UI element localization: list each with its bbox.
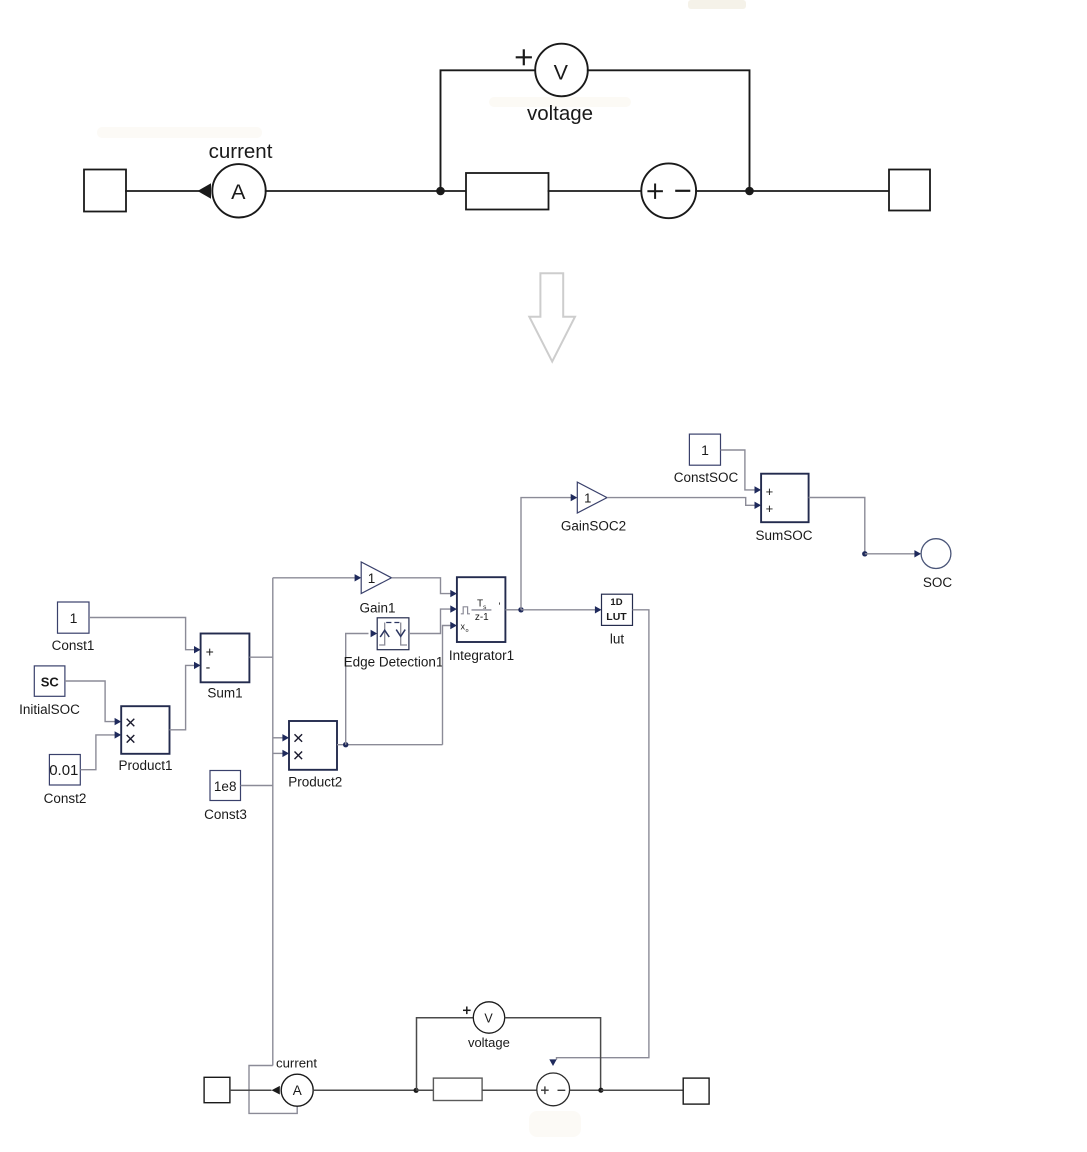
svg-text:V: V	[554, 61, 569, 85]
svg-text:o: o	[465, 628, 468, 634]
block Integrator1	[457, 577, 506, 642]
svg-text:Const1: Const1	[52, 638, 95, 653]
block Gain1	[361, 562, 391, 594]
wire Product1 to Sum1 minus input	[170, 665, 195, 729]
wire T1 to ammeter	[126, 190, 199, 192]
block Sum1	[201, 634, 250, 683]
wire T3 to ammeter2	[230, 1089, 272, 1091]
svg-text:1: 1	[70, 610, 78, 626]
block Const2	[49, 755, 80, 786]
svg-text:V: V	[484, 1011, 493, 1025]
svg-text:0.01: 0.01	[49, 762, 78, 779]
wire Edge Detection1 to Integrator1 input2	[409, 609, 451, 633]
svg-text:Const3: Const3	[204, 807, 247, 822]
wire junction to Edge Detection1 input	[346, 634, 369, 745]
svg-text:voltage: voltage	[527, 102, 593, 125]
wire N3 up to voltmeter2	[417, 1018, 474, 1090]
svg-text:+: +	[766, 501, 774, 516]
block lut (1D LUT)	[602, 594, 633, 625]
block Product1	[121, 706, 169, 754]
svg-text:current: current	[209, 140, 273, 163]
main vertical wire	[272, 578, 274, 1066]
svg-text:Product2: Product2	[288, 775, 342, 790]
voltmeter plus label	[517, 56, 531, 58]
terminal T4 (right square)	[683, 1078, 709, 1104]
big down arrow	[529, 273, 575, 361]
svg-text:Edge Detection1: Edge Detection1	[344, 655, 444, 670]
wire voltmeter to node N2	[588, 70, 750, 191]
wire lut output down to voltage source control	[557, 610, 649, 1060]
svg-text:1: 1	[584, 490, 591, 505]
wire source2 to node N4	[570, 1089, 601, 1091]
voltmeter2 plus label	[463, 1009, 471, 1011]
block SumSOC	[761, 474, 809, 523]
svg-text:Integrator1: Integrator1	[449, 648, 514, 663]
wire Sum1 output to main vertical	[249, 656, 272, 658]
wire junction to lut	[521, 609, 596, 611]
wire N1 to resistor	[441, 190, 467, 192]
svg-text:1: 1	[701, 442, 709, 458]
svg-text:+: +	[766, 484, 774, 499]
wire junction up to GainSOC2	[521, 498, 571, 610]
wire Const2 to Product1 input2	[80, 735, 115, 770]
wire N1 up to voltmeter loop	[441, 70, 536, 191]
ammeter2 arrowhead	[272, 1086, 280, 1095]
block Const3	[210, 771, 241, 801]
block Edge Detection1	[377, 618, 409, 650]
voltmeter V3	[473, 1002, 504, 1033]
resistor R2	[433, 1078, 482, 1100]
BOTTOM CIRCUIT	[204, 1002, 709, 1106]
voltage source V2	[641, 163, 696, 218]
block Const1	[58, 602, 90, 633]
svg-text:1: 1	[368, 571, 376, 586]
junction dot before SOC	[862, 551, 867, 556]
wire Product2 to Integrator1 x0 input	[443, 626, 451, 745]
output port SOC	[921, 539, 951, 569]
svg-text:1D: 1D	[610, 597, 622, 608]
svg-text:+: +	[206, 644, 214, 660]
node N4 junction dot	[598, 1088, 603, 1093]
svg-text:Const2: Const2	[44, 791, 87, 806]
svg-text:Gain1: Gain1	[359, 601, 395, 616]
svg-text:current: current	[276, 1055, 317, 1070]
block ConstSOC	[689, 434, 720, 465]
svg-text:A: A	[293, 1083, 302, 1098]
wire Const1 to Sum1 plus input	[89, 618, 195, 650]
ammeter arrowhead	[198, 183, 212, 199]
wire GainSOC2 to SumSOC input2	[607, 498, 755, 506]
block GainSOC2	[577, 482, 607, 513]
svg-text:z-1: z-1	[475, 612, 489, 623]
TOP CIRCUIT	[84, 44, 930, 219]
wire ammeter2 to node N3	[313, 1089, 416, 1091]
wire ammeter to node N1	[266, 190, 441, 192]
block InitialSOC	[34, 666, 65, 696]
wire main vertical down to ammeter2	[249, 1066, 297, 1114]
wire N2 to terminal T2	[750, 190, 890, 192]
SIMULINK DIAGRAM	[19, 434, 952, 1113]
svg-text:SC: SC	[41, 675, 60, 690]
svg-text:SumSOC: SumSOC	[755, 528, 812, 543]
svg-text:lut: lut	[610, 632, 625, 647]
svg-text:GainSOC2: GainSOC2	[561, 519, 626, 534]
terminal T3 (left square)	[204, 1077, 230, 1102]
wire SumSOC output to SOC	[809, 498, 865, 554]
node N1 junction dot	[436, 187, 445, 196]
wire source to node N2	[696, 190, 749, 192]
svg-text:voltage: voltage	[468, 1035, 510, 1050]
junction dot Product2 output	[343, 742, 348, 747]
svg-text:': '	[499, 602, 501, 613]
wire main vertical to Product2 input2	[273, 752, 284, 754]
svg-text:SOC: SOC	[923, 575, 953, 590]
wire N3 to resistor2	[416, 1089, 433, 1091]
wire main vertical to Gain1	[273, 577, 356, 579]
svg-text:LUT: LUT	[606, 611, 627, 623]
node N2 junction dot	[745, 187, 754, 196]
node N3 junction dot	[414, 1088, 419, 1093]
svg-text:InitialSOC: InitialSOC	[19, 702, 80, 717]
ammeter A2	[281, 1074, 313, 1106]
wire voltmeter2 to node N4	[505, 1018, 601, 1090]
voltmeter V1	[535, 44, 588, 97]
block Product2	[289, 721, 337, 770]
voltage source V4	[537, 1073, 570, 1106]
junction dot Integrator1 output	[518, 607, 523, 612]
wire Product2 output to x0 riser	[337, 744, 443, 746]
svg-text:-: -	[206, 659, 211, 675]
wire resistor2 to source2	[482, 1089, 537, 1091]
wire Const3 to main vertical	[241, 785, 273, 787]
terminal T1 (left square)	[84, 170, 126, 212]
wire N4 to terminal T4	[601, 1089, 683, 1091]
svg-text:ConstSOC: ConstSOC	[674, 470, 739, 485]
svg-text:T: T	[477, 598, 483, 609]
svg-text:1e8: 1e8	[214, 779, 237, 794]
wire Integrator1 output	[505, 609, 521, 611]
wire main vertical to Product2 input1	[273, 737, 284, 739]
wire InitialSOC to Product1 input1	[65, 681, 115, 722]
wire ConstSOC to SumSOC input1	[721, 450, 755, 490]
wire resistor to source	[549, 190, 642, 192]
ammeter A1	[212, 164, 265, 217]
terminal T2 (right square)	[889, 170, 930, 211]
wire Gain1 to Integrator1 input1	[392, 578, 451, 594]
resistor R1	[466, 173, 549, 210]
svg-text:Product1: Product1	[118, 758, 172, 773]
svg-text:Sum1: Sum1	[207, 686, 242, 701]
svg-text:A: A	[231, 180, 246, 204]
